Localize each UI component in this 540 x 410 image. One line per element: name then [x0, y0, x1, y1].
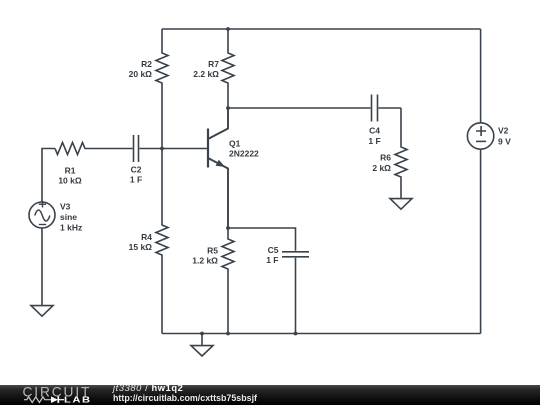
node dot top R7	[226, 27, 230, 31]
svg-text:15 kΩ: 15 kΩ	[129, 242, 153, 252]
resistor R4	[156, 149, 168, 334]
resistor R5	[222, 228, 234, 334]
wire collector node to C4	[228, 107, 371, 109]
node dot ground stub	[200, 332, 204, 336]
svg-text:R1: R1	[65, 166, 76, 176]
svg-text:sine: sine	[60, 212, 77, 222]
svg-text:20 kΩ: 20 kΩ	[129, 69, 153, 79]
svg-text:LAB: LAB	[64, 395, 92, 404]
svg-text:1 F: 1 F	[130, 175, 142, 185]
svg-text:1 F: 1 F	[266, 255, 278, 265]
capacitor C4	[372, 95, 378, 122]
transistor Q1	[208, 108, 228, 228]
svg-text:R7: R7	[208, 59, 219, 69]
wire V3 to R1	[42, 149, 55, 203]
svg-text:2N2222: 2N2222	[229, 148, 259, 158]
svg-text:10 kΩ: 10 kΩ	[58, 176, 82, 186]
source V2	[467, 123, 493, 149]
node dot emitter	[226, 226, 230, 230]
svg-text:R2: R2	[141, 59, 152, 69]
wire C2 to node	[140, 148, 163, 150]
svg-text:R5: R5	[207, 246, 218, 256]
resistor R1	[55, 143, 133, 155]
wire emitter to C5	[228, 228, 296, 251]
footer bar	[0, 385, 540, 405]
svg-text:1 F: 1 F	[368, 136, 380, 146]
wire right rail lower	[480, 149, 482, 333]
wire base	[162, 148, 208, 150]
svg-text:R6: R6	[380, 153, 391, 163]
wire C4 to R6	[379, 107, 402, 109]
resistor R7	[222, 29, 234, 108]
svg-text:2.2 kΩ: 2.2 kΩ	[193, 69, 219, 79]
svg-text:C5: C5	[268, 245, 279, 255]
svg-text:http://circuitlab.com/cxttsb75: http://circuitlab.com/cxttsb75sbsjf	[113, 393, 257, 403]
svg-text:V3: V3	[60, 202, 71, 212]
logo diode	[51, 396, 58, 403]
wire right rail upper	[480, 29, 482, 123]
svg-text:2 kΩ: 2 kΩ	[372, 163, 391, 173]
capacitor C5	[282, 252, 309, 257]
wire ground stub mid	[201, 334, 203, 346]
resistor R6	[395, 108, 407, 198]
svg-text:1.2 kΩ: 1.2 kΩ	[192, 256, 218, 266]
wire C5 bottom	[295, 258, 297, 334]
svg-text:R4: R4	[141, 232, 152, 242]
svg-text:C2: C2	[131, 165, 142, 175]
svg-text:Q1: Q1	[229, 139, 241, 149]
resistor R2	[156, 29, 168, 149]
svg-text:C4: C4	[369, 126, 380, 136]
source V3	[29, 201, 55, 228]
node dot C5 bottom	[294, 332, 298, 336]
ground G2	[191, 346, 213, 356]
svg-text:V2: V2	[498, 126, 509, 136]
wire V3 to ground	[41, 228, 43, 305]
node dot collector	[226, 106, 230, 110]
svg-text:9 V: 9 V	[498, 137, 511, 147]
ground G3	[390, 199, 412, 210]
wire top rail	[162, 28, 481, 30]
logo resistor-diode squiggle	[24, 397, 64, 403]
ground G1	[31, 306, 53, 317]
svg-text:1 kHz: 1 kHz	[60, 223, 82, 233]
node dot R5 bottom	[226, 332, 230, 336]
node dot base	[160, 147, 164, 151]
wire bottom rail	[162, 333, 481, 335]
capacitor C2	[134, 135, 139, 162]
